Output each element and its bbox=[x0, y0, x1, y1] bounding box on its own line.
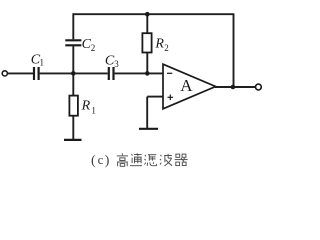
svg-text:3: 3 bbox=[114, 59, 119, 69]
svg-text:1: 1 bbox=[91, 106, 96, 116]
svg-text:A: A bbox=[180, 76, 193, 95]
svg-text:2: 2 bbox=[164, 43, 169, 53]
svg-text:(: ( bbox=[91, 153, 96, 168]
svg-text:2: 2 bbox=[91, 43, 96, 53]
svg-text:R: R bbox=[81, 99, 91, 114]
svg-text:): ) bbox=[105, 153, 110, 168]
svg-text:1: 1 bbox=[40, 57, 45, 67]
svg-text:R: R bbox=[154, 37, 164, 52]
svg-text:c: c bbox=[98, 152, 104, 167]
